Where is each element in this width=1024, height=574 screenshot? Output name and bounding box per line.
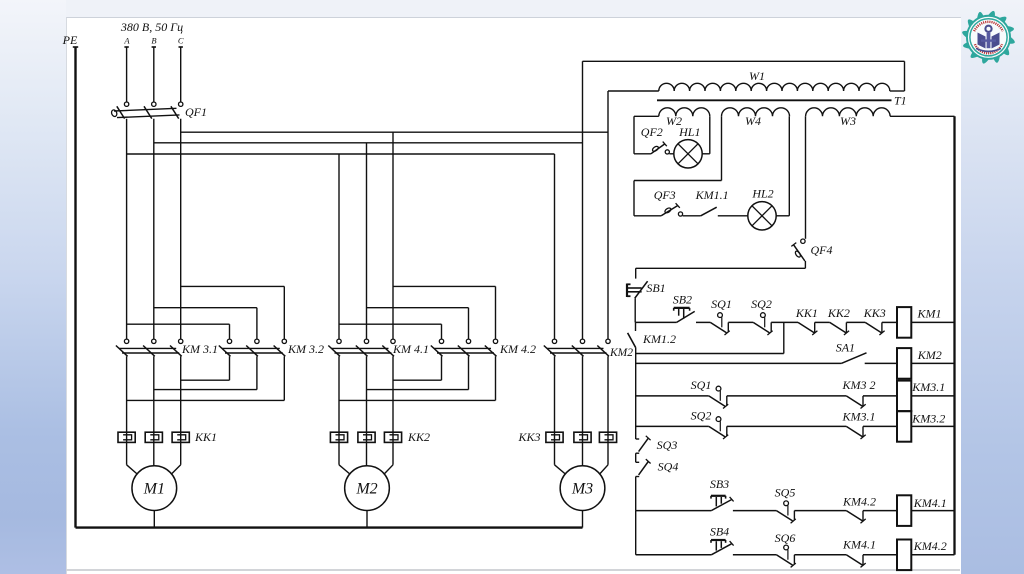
- svg-text:KM1.1: KM1.1: [695, 188, 729, 202]
- emergency stop button SB1: [635, 281, 648, 298]
- wire KK1 to KK2: [815, 321, 830, 323]
- wire bus phase C: [181, 131, 608, 133]
- svg-text:M2: M2: [355, 481, 377, 498]
- wire feed KM3.2 pole2: [154, 307, 257, 309]
- svg-text:KM1.2: KM1.2: [642, 332, 676, 346]
- wire phase A supply drop: [126, 47, 128, 102]
- wire KK3 to KM1 coil: [882, 321, 897, 323]
- auxiliary contact KM3.1: [846, 426, 862, 436]
- svg-text:HL1: HL1: [678, 125, 700, 139]
- wire phase C supply drop: [180, 47, 182, 102]
- wire rail SB1 to row1: [634, 298, 636, 322]
- wire feed KM4.2 pole2: [367, 307, 469, 309]
- limit switch SQ1 row1: [710, 322, 726, 332]
- wire SB2 to SQ1: [696, 321, 710, 323]
- wire W4 right drop: [788, 116, 790, 216]
- wire phase B supply drop: [153, 47, 155, 102]
- svg-text:SQ1: SQ1: [691, 378, 712, 392]
- circuit breaker QF2: [651, 144, 665, 154]
- svg-text:QF3: QF3: [654, 188, 676, 202]
- wire SQ2 to KK1 with latch node: [771, 321, 798, 323]
- wire row3 rail to SQ1: [636, 395, 709, 397]
- wire PE vertical conductor: [74, 47, 76, 528]
- wire KM3.2 coil to right rail: [911, 425, 954, 427]
- svg-text:SB1: SB1: [646, 281, 665, 295]
- svg-text:C: C: [178, 36, 184, 46]
- svg-text:SQ2: SQ2: [691, 409, 712, 423]
- svg-text:KM3.1: KM3.1: [911, 380, 945, 394]
- wire KM3.2 output links: [229, 356, 231, 380]
- auxiliary contact KM4.2: [846, 511, 862, 521]
- svg-text:T1: T1: [894, 94, 907, 108]
- wire KM4.2 to KM4.1 coil: [863, 510, 897, 512]
- svg-text:KM3 2: KM3 2: [842, 378, 876, 392]
- pushbutton SB2: [677, 311, 695, 322]
- wire row6 rail to SB4: [636, 554, 712, 556]
- pushbutton SB4: [711, 544, 731, 555]
- wire rail SQ4 to row5: [635, 477, 637, 511]
- wire SB3 to SQ5: [733, 510, 777, 512]
- wire KM2 coil to right rail: [911, 362, 954, 364]
- svg-text:KK1: KK1: [194, 430, 217, 444]
- wire phase B drop to KM2 and W1 feed: [582, 61, 584, 339]
- svg-text:SB4: SB4: [710, 525, 729, 539]
- circuit breaker QF4: [801, 239, 805, 243]
- wire QF2 to HL1: [669, 153, 673, 155]
- wire phase A to KM3.1: [126, 119, 128, 339]
- wire row4 rail to SQ2: [636, 425, 709, 427]
- contactor contact KM2: [552, 339, 556, 343]
- transformer winding W1: [608, 90, 659, 92]
- wire KM4.2 coil to right rail: [911, 554, 954, 556]
- svg-text:KM3.1: KM3.1: [842, 410, 876, 424]
- switch SA1: [841, 353, 866, 364]
- wire phase A drop to KM4.1: [338, 154, 340, 339]
- transformer winding W2: [659, 108, 710, 117]
- wire rail SQ3 to SQ4: [635, 453, 637, 462]
- thermal contact KK1: [798, 322, 814, 332]
- wire KM4.1 to KM4.2 coil: [863, 554, 897, 556]
- wire phase C to KM3.1: [180, 119, 182, 339]
- coil KM4.2: [897, 540, 911, 571]
- limit switch SQ4: [636, 461, 640, 463]
- wire W4 left drop: [721, 116, 723, 180]
- wire row2 rail to SA1: [636, 362, 842, 364]
- svg-text:KM 3.2: KM 3.2: [287, 342, 324, 356]
- contactor contact KM4.1: [337, 339, 341, 343]
- limit switch SQ2 row4: [709, 426, 725, 436]
- svg-text:SB3: SB3: [710, 477, 729, 491]
- motor M3: [582, 442, 584, 465]
- wire bus phase A: [127, 153, 555, 155]
- svg-text:M1: M1: [143, 481, 165, 498]
- transformer winding W3: [806, 108, 891, 116]
- motor M1: [153, 442, 155, 465]
- svg-text:QF4: QF4: [811, 243, 833, 257]
- wire feed KM3.2 pole3: [181, 285, 285, 287]
- svg-text:KK3: KK3: [517, 430, 540, 444]
- contact KM1.2: [628, 333, 636, 348]
- wire QF4 down and across to SB1: [804, 261, 806, 268]
- thermal contact KK3: [865, 322, 881, 332]
- wire KM2 outputs: [554, 356, 556, 432]
- svg-text:M3: M3: [571, 481, 593, 498]
- wire phase C drop to KM4.1: [392, 132, 394, 339]
- svg-text:KM2: KM2: [609, 347, 633, 359]
- svg-text:A: A: [123, 36, 130, 46]
- wire KM4.2 output links: [441, 356, 443, 380]
- wire SQ6 to KM4.1 contact: [794, 554, 846, 556]
- wire W2 left drop: [633, 116, 635, 154]
- svg-text:KM4.1: KM4.1: [913, 496, 947, 510]
- svg-text:SQ5: SQ5: [775, 486, 796, 500]
- limit switch SQ3: [636, 438, 640, 440]
- wire feed KM4.2 pole3: [393, 285, 496, 287]
- svg-text:KM 3.1: KM 3.1: [181, 342, 218, 356]
- wire row5 rail to SB3: [636, 510, 712, 512]
- wire rail KM1.2 to SQ3: [635, 348, 637, 439]
- limit switch SQ2 row1: [753, 322, 769, 332]
- auxiliary contact KM4.1: [846, 555, 862, 565]
- svg-text:QF2: QF2: [641, 125, 663, 139]
- wire SQ2 to KM3.1 contact: [727, 425, 847, 427]
- svg-text:SQ2: SQ2: [751, 297, 772, 311]
- wire latch branch: [636, 353, 784, 355]
- wire PE bottom bus: [76, 526, 583, 528]
- svg-text:KM2: KM2: [917, 348, 942, 362]
- svg-text:KM3.2: KM3.2: [911, 412, 945, 426]
- limit switch SQ6: [776, 555, 792, 565]
- svg-text:SQ1: SQ1: [711, 297, 732, 311]
- svg-text:KM4.2: KM4.2: [842, 495, 876, 509]
- lamp HL2: [748, 202, 776, 230]
- coil KM4.1: [897, 495, 911, 526]
- svg-text:KK2: KK2: [827, 306, 850, 320]
- wire W4 branch across: [634, 180, 722, 182]
- transformer core T1: [657, 99, 892, 101]
- svg-text:SQ6: SQ6: [775, 531, 796, 545]
- wire rail row5 to row6: [635, 511, 637, 555]
- coil KM3.1: [897, 381, 911, 412]
- svg-text:SQ4: SQ4: [658, 460, 679, 474]
- svg-text:KM4.2: KM4.2: [913, 539, 947, 553]
- contact KM1.1: [701, 207, 717, 216]
- wire SA1 to KM2 coil: [865, 362, 897, 364]
- wire QF3 row left: [634, 215, 661, 217]
- svg-text:KM 4.1: KM 4.1: [392, 342, 429, 356]
- wire phase B drop to KM4.1: [366, 143, 368, 339]
- thermal overload KK1: [126, 432, 128, 442]
- contactor contact KM3.1: [124, 339, 128, 343]
- svg-text:KK3: KK3: [863, 306, 886, 320]
- wire KK2 to KK3: [846, 321, 865, 323]
- wire HL2 to W4 right: [776, 215, 789, 217]
- wire rail row1 to KM1.2: [635, 322, 637, 331]
- auxiliary contact KM3.2: [846, 396, 862, 406]
- motor M2: [366, 442, 368, 465]
- wire QF2 row left: [634, 153, 651, 155]
- coil KM3.2: [897, 411, 911, 442]
- svg-text:QF1: QF1: [185, 105, 207, 119]
- wire phase A drop to KM2: [554, 154, 556, 339]
- svg-text:KM 4.2: KM 4.2: [499, 342, 536, 356]
- lamp HL1: [674, 140, 702, 168]
- wire row1 rail to SB2: [636, 321, 677, 323]
- wire W4 branch down: [633, 181, 635, 216]
- svg-text:W1: W1: [749, 69, 765, 83]
- svg-text:B: B: [151, 36, 156, 46]
- wire SQ5 to KM4.2 contact: [794, 510, 846, 512]
- svg-text:HL2: HL2: [751, 187, 773, 201]
- thermal contact KK2: [830, 322, 846, 332]
- svg-text:KK2: KK2: [407, 430, 430, 444]
- wire right control rail: [953, 116, 955, 555]
- wire rail above SB1: [635, 268, 637, 278]
- svg-text:SQ3: SQ3: [657, 438, 678, 452]
- svg-text:SA1: SA1: [836, 341, 855, 355]
- wire feed KM3.2 pole1: [127, 323, 230, 325]
- coil KM2: [897, 348, 911, 379]
- limit switch SQ5: [776, 511, 792, 521]
- svg-text:KM1: KM1: [917, 307, 942, 321]
- transformer winding W4: [722, 108, 790, 117]
- svg-text:KM4.1: KM4.1: [842, 538, 876, 552]
- wire HL1 to W2 right: [702, 153, 710, 155]
- thermal overload KK3: [554, 432, 556, 442]
- wire QF3 to KM1.1: [683, 215, 701, 217]
- pushbutton SB3: [711, 500, 731, 511]
- wire KM3.1 to KM3.2 coil: [863, 425, 897, 427]
- wire phase C drop to KM2 and W1 feed: [607, 91, 609, 339]
- wire T1 primary top feed: [583, 60, 905, 62]
- limit switch SQ1 row3: [709, 396, 725, 406]
- circuit breaker QF1: [124, 102, 128, 106]
- wire KM4.1 outputs: [338, 356, 340, 432]
- contactor contact KM4.2: [439, 339, 443, 343]
- wire KM3.2 to KM3.1 coil: [863, 395, 897, 397]
- wire KM4.1 coil to right rail: [911, 510, 954, 512]
- wire KM1 coil to right rail: [911, 321, 954, 323]
- coil KM1: [897, 307, 911, 338]
- wire bus phase B: [154, 142, 583, 144]
- wire KM1.1 to HL2: [718, 215, 748, 217]
- wire W3 left drop: [805, 116, 807, 239]
- contactor contact KM3.2: [227, 339, 231, 343]
- college logo emblem: [962, 11, 1015, 64]
- wire KM3.1 coil to right rail: [911, 395, 954, 397]
- wire feed KM4.2 pole1: [339, 323, 442, 325]
- wire SQ1 to KM3.2 contact: [727, 395, 847, 397]
- wire KM3.1 outputs: [126, 356, 128, 432]
- wire SB4 to SQ6: [733, 554, 777, 556]
- wire phase B to KM3.1: [153, 119, 155, 339]
- wire W2 right drop: [709, 116, 711, 154]
- svg-text:W3: W3: [840, 114, 856, 128]
- svg-text:KK1: KK1: [795, 306, 818, 320]
- thermal overload KK2: [338, 432, 340, 442]
- circuit breaker QF3: [661, 206, 677, 216]
- svg-text:W4: W4: [745, 114, 761, 128]
- wire SQ1 to SQ2: [728, 321, 753, 323]
- svg-text:SB2: SB2: [673, 293, 692, 307]
- svg-text:PE: PE: [62, 33, 78, 47]
- svg-text:380 В, 50 Гц: 380 В, 50 Гц: [120, 20, 183, 34]
